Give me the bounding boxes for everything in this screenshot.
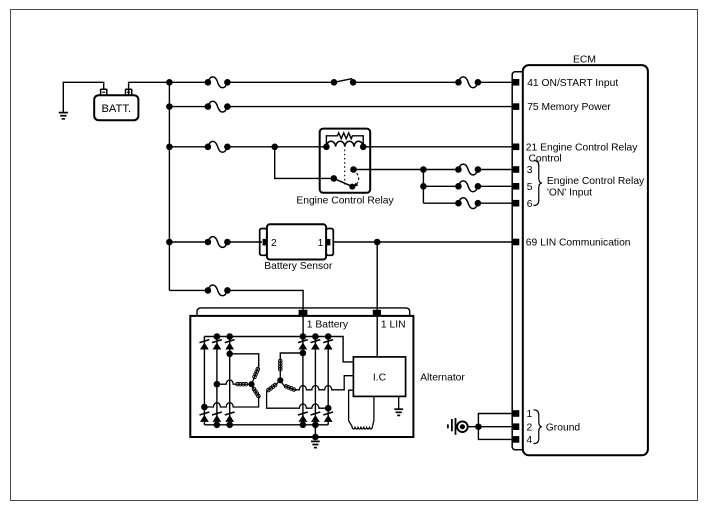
label Engine Control Relay ON Input xyxy=(547,176,645,198)
wire row4 sensor to ECM pin69 xyxy=(333,241,513,243)
wire row3a fuse to ECM pin3 xyxy=(478,169,513,171)
fuse F2 xyxy=(455,77,481,88)
svg-text:Battery Sensor: Battery Sensor xyxy=(264,261,333,272)
node top rail L3 xyxy=(226,333,233,340)
wire LIN drop xyxy=(376,242,378,311)
winding right phase sense to I.C xyxy=(280,376,353,392)
battery sensor pin 2 xyxy=(263,238,277,249)
node case ground xyxy=(312,434,319,441)
label pin69 xyxy=(526,238,631,249)
wire row2 bus to fuse xyxy=(169,106,208,108)
ECM pin 41 xyxy=(513,79,520,86)
winding left phase B xyxy=(217,380,252,386)
wire row3 fuse to relay xyxy=(227,146,326,148)
label 1 LIN xyxy=(381,319,406,330)
wire rectifier top rail xyxy=(204,337,353,362)
wire row2 fuse to ECM pin75 xyxy=(227,106,513,108)
label Alternator xyxy=(420,373,465,384)
wire rectifier column R1 xyxy=(302,337,304,425)
battery sensor right terminal xyxy=(326,229,333,256)
node phase tap L2 xyxy=(214,381,221,388)
label pin2 xyxy=(527,422,533,433)
battery sensor left terminal xyxy=(260,229,267,256)
node phase tap R1 xyxy=(300,350,307,357)
node relay out row3 xyxy=(420,166,427,173)
ECM pin 75 xyxy=(513,103,520,110)
wire row5 fuse to alternator xyxy=(227,290,303,311)
wire main bus vertical xyxy=(168,82,170,290)
node bus row1 xyxy=(166,79,173,86)
wire battery positive to bus xyxy=(129,82,170,95)
diode DR1b (negative) xyxy=(298,412,308,422)
relay resistor R1 (parallel) xyxy=(326,133,363,147)
svg-text:2: 2 xyxy=(527,422,533,433)
fuse F6 xyxy=(455,181,481,192)
ECM pin 1 xyxy=(513,410,520,417)
relay switch fixed contact xyxy=(350,166,357,173)
wire rectifier column R3 xyxy=(327,337,329,425)
ECM pin 4 xyxy=(513,436,520,443)
diode DR2b (negative) xyxy=(311,412,321,422)
svg-text:3: 3 xyxy=(527,165,533,176)
op-amp I.C regulator box xyxy=(353,357,405,397)
ECM pin 21 xyxy=(513,144,520,151)
label I.C xyxy=(373,373,387,384)
node branch row5 xyxy=(420,183,427,190)
relay switch common contact xyxy=(331,175,338,182)
svg-text:4: 4 xyxy=(527,435,533,446)
winding right phase lower-left xyxy=(267,380,329,408)
node ground branch xyxy=(475,423,482,430)
wire rectifier column R2 xyxy=(314,337,316,425)
diode DL2b (negative) xyxy=(212,412,222,422)
svg-text:6: 6 xyxy=(527,199,533,210)
node bottom rail L2 xyxy=(214,422,221,429)
wire rectifier column L1 xyxy=(203,337,205,425)
ECM pin 6 xyxy=(513,200,520,207)
wire row1 fuse to ECM pin41 xyxy=(478,81,513,83)
wire rectifier column L3 xyxy=(229,337,231,425)
svg-text:I.C: I.C xyxy=(373,373,387,384)
label Ground xyxy=(546,422,581,433)
fuse F7 xyxy=(455,198,481,209)
svg-text:BATT.: BATT. xyxy=(101,103,131,115)
node bus row2 xyxy=(166,103,173,110)
node left Y centre xyxy=(248,381,254,387)
node bottom rail R1 xyxy=(300,422,307,429)
fuse F4 xyxy=(205,141,231,152)
label pin75 xyxy=(527,102,611,113)
diode DR2t (positive) xyxy=(311,340,321,350)
node top rail L2 xyxy=(214,333,221,340)
wire rectifier bottom rail xyxy=(204,424,328,426)
field winding rotor coil xyxy=(349,390,374,429)
alternator connector strip xyxy=(197,308,410,316)
node top rail R3 xyxy=(325,333,332,340)
wire branch to ECM pin2 xyxy=(478,426,513,428)
wire row1 fuse to switch xyxy=(227,81,334,83)
alternator box xyxy=(190,316,413,437)
svg-text:1: 1 xyxy=(527,409,533,420)
fuse F9 xyxy=(205,285,231,296)
diode DL1t (positive) xyxy=(200,340,210,350)
wire row1 switch to fuse xyxy=(353,81,458,83)
node bottom rail R2 xyxy=(312,422,319,429)
label pin21 xyxy=(526,142,638,164)
diode DR3b (negative) xyxy=(323,412,333,422)
diode DL3b (negative) xyxy=(225,412,235,422)
svg-text:69 LIN Communication: 69 LIN Communication xyxy=(526,238,631,249)
brace pins 3-5-6 xyxy=(534,161,543,206)
label pin6 xyxy=(527,199,533,210)
svg-text:1 Battery: 1 Battery xyxy=(307,319,349,330)
battery sensor box xyxy=(267,224,326,259)
wire ground to branch node xyxy=(468,426,479,428)
wire alternator battery feed internal xyxy=(302,316,304,337)
alternator terminal 1 LIN xyxy=(373,310,381,316)
svg-text:2: 2 xyxy=(271,238,277,249)
diode DL1b (negative) xyxy=(200,412,210,422)
svg-text:ECM: ECM xyxy=(573,54,596,65)
node top rail R2 xyxy=(312,333,319,340)
relay actuation dashed link xyxy=(344,150,346,185)
label 1 Battery xyxy=(307,319,349,330)
svg-text:Engine Control Relay: Engine Control Relay xyxy=(296,196,394,207)
battery BATT. negative terminal xyxy=(101,89,107,95)
node LIN branch xyxy=(374,239,381,246)
diode DR3t (positive) xyxy=(323,340,333,350)
label pin1 xyxy=(527,409,533,420)
node right Y centre xyxy=(277,377,283,383)
wire row6 fuse to ECM pin6 xyxy=(478,202,513,204)
relay switch blade xyxy=(334,178,356,189)
winding left phase A xyxy=(230,354,260,384)
node bottom rail L3 xyxy=(226,422,233,429)
svg-text:41 ON/START Input: 41 ON/START Input xyxy=(527,78,618,89)
ground I.C internal xyxy=(394,409,403,415)
diode DR1t (positive) xyxy=(298,340,308,350)
relay switch motion arc xyxy=(353,173,359,187)
svg-text:1: 1 xyxy=(318,238,324,249)
fuse F1 xyxy=(205,77,231,88)
node row3 branch xyxy=(271,144,278,151)
wire relay output to node xyxy=(354,169,424,171)
battery BATT. positive terminal xyxy=(126,89,132,95)
label Engine Control Relay xyxy=(296,196,394,207)
winding left phase C xyxy=(204,384,260,407)
label pin4 xyxy=(527,435,533,446)
svg-text:75 Memory Power: 75 Memory Power xyxy=(527,102,611,113)
node phase tap L3 xyxy=(226,351,233,358)
battery sensor pin 1 xyxy=(318,238,331,249)
wire branch to ECM pin4 xyxy=(478,427,513,440)
wire branch vertical 3-5-6 xyxy=(422,170,424,204)
battery BATT. xyxy=(94,95,138,120)
fuse F8 xyxy=(205,237,231,248)
wire row6 to fuse xyxy=(423,202,458,204)
label pin5 xyxy=(527,182,533,193)
ECM pin 5 xyxy=(513,183,520,190)
wire battery negative to ground xyxy=(63,82,103,112)
fuse F5 xyxy=(455,164,481,175)
wire row5 fuse to ECM pin5 xyxy=(478,185,513,187)
relay coil L1 xyxy=(323,141,366,150)
node phase tap R3 xyxy=(325,405,332,412)
diode DL2t (positive) xyxy=(212,340,222,350)
wire row4 fuse to sensor xyxy=(227,241,262,243)
svg-text:21 Engine Control Relay: 21 Engine Control Relay xyxy=(526,142,638,153)
switch S1 (ignition) xyxy=(331,79,357,86)
ground G1 (battery negative) xyxy=(59,113,68,119)
wire row3 bus to fuse xyxy=(169,146,208,148)
ECM pin 3 xyxy=(513,166,520,173)
wire row3a to fuse xyxy=(423,169,458,171)
svg-text:1 LIN: 1 LIN xyxy=(381,319,406,330)
wire LIN internal to I.C xyxy=(376,316,378,357)
wire relay coil to ECM pin21 xyxy=(363,146,513,148)
svg-text:Alternator: Alternator xyxy=(420,373,465,384)
ECM connector shell xyxy=(512,72,526,450)
label pin3 xyxy=(527,165,533,176)
node phase tap L1 xyxy=(201,404,208,411)
diode DL3t (positive) xyxy=(225,340,235,350)
chassis ground bolt symbol xyxy=(448,418,468,435)
wire rectifier column L2 xyxy=(216,337,218,425)
winding right phase up xyxy=(279,353,303,380)
label pin41 xyxy=(527,78,618,89)
label Battery Sensor xyxy=(264,261,333,272)
wire row5 bus corner to fuse xyxy=(169,289,208,291)
ECM pin 69 xyxy=(513,239,520,246)
svg-text:'ON' Input: 'ON' Input xyxy=(547,187,592,198)
svg-text:Ground: Ground xyxy=(546,422,581,433)
fuse F3 xyxy=(205,101,231,112)
node bus row3 xyxy=(166,144,173,151)
alternator terminal 1 Battery xyxy=(299,310,308,316)
wire bottom rail to case ground xyxy=(314,425,316,437)
svg-text:5: 5 xyxy=(527,182,533,193)
wire branch to ECM pin1 xyxy=(478,414,513,427)
brace pins 1-2-4 xyxy=(534,410,543,444)
wire I.C to ground xyxy=(398,396,400,409)
wire branch to relay switch xyxy=(275,147,334,179)
wire row1 bus to fuse xyxy=(169,81,208,83)
relay K1 box xyxy=(320,129,371,193)
ground alternator case xyxy=(311,441,320,447)
node top rail R1 xyxy=(300,333,307,340)
svg-text:Control: Control xyxy=(529,153,562,164)
svg-text:Engine Control Relay: Engine Control Relay xyxy=(547,176,645,187)
ECM U1 box xyxy=(523,65,648,455)
wire row4 bus to fuse xyxy=(169,241,208,243)
node bus row4 xyxy=(166,239,173,246)
wire row5 to fuse xyxy=(423,185,458,187)
label ECM xyxy=(573,54,596,65)
ECM pin 2 xyxy=(513,423,520,430)
